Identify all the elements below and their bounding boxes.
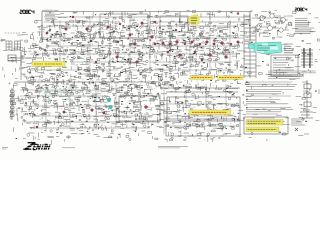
green-highlight component G6 [77,89,80,92]
long bus bottom band [24,122,160,128]
red transistor Q11 [117,41,119,43]
red transistor Q8 [107,26,110,29]
resistor [34,51,306,61]
setup table yellow row 2 [246,127,279,132]
wire [13,80,319,94]
label [18,100,228,110]
tuner coil group 2 [15,41,21,50]
green-highlight component G7 [83,95,86,98]
component value text flecks [34,30,271,40]
component value text flecks [33,70,234,80]
numbered note marks [246,82,248,108]
Zenith logo letters ENITH [33,144,50,149]
red transistor Q12 [134,43,137,46]
cyan highlighted IF module [254,42,282,54]
CRT socket marks [300,112,313,118]
component value text flecks [26,80,238,90]
yoke component column right [306,80,308,118]
green-highlight component G12 [59,88,62,90]
interconnect ladder rails [244,14,256,78]
red transistor Q37 [95,61,97,63]
red transistor Q13 [154,43,156,45]
transistor [1,39,294,51]
red text in osc bar [192,111,227,113]
red transistor Q31 [36,126,38,128]
resistor [14,80,266,91]
caption courtesy source [158,146,188,148]
flyback windings [301,50,313,65]
red transistor Q25 [167,51,169,53]
red transistor Q38 [136,61,139,64]
red transistor Q5 [119,23,121,25]
component value text flecks [25,101,239,110]
resistor [20,40,273,52]
wire [23,130,309,145]
red transistor Q10 [151,36,154,39]
yellow highlight bar (AGC line) [32,62,65,67]
notes paragraph right mid [268,71,316,79]
red transistor Q34 [145,106,148,109]
red transistor Q36 [116,56,119,59]
horizontal sweep board box [167,97,240,121]
red transistor Q23 [230,43,232,45]
long vertical wires [46,14,230,134]
transistor Q304 top-right [256,25,260,29]
label [44,40,305,50]
wires linking top-right transistors [252,16,289,30]
title block text top-left [45,13,60,16]
green-highlight component G11 [86,89,89,92]
red transistor Q39 [201,59,203,61]
red transistor Q19 [199,43,201,45]
red transistor Q24 [237,41,240,44]
vertical sub-board box [119,96,160,121]
note text right of table [291,119,305,125]
long signal wires top band [44,17,250,22]
green-highlight component G14 [97,90,100,93]
video IF block box [100,14,148,38]
wire [13,120,319,132]
red transistor Q27 [194,51,196,53]
footnote lines bottom right of notes [252,118,290,125]
highlighted transformer marks [191,18,197,23]
yellow highlight bar pair left [190,76,213,80]
setup table row2 text [248,128,277,130]
mini table right of module [284,44,293,53]
cyan pin box [249,44,255,49]
yoke coils [304,84,311,107]
component value text flecks [36,40,238,50]
caption bottom-left [2,148,8,149]
long horizontal wires lower band [20,90,238,126]
parts list box right [271,55,298,76]
label [38,20,276,29]
red transistor Q2 [65,28,68,31]
transistor [12,60,280,71]
red transistor Q18 [191,41,194,44]
green-highlight component G4 [63,90,66,93]
transistor Q306 top-right [279,28,283,32]
red transistor Q7 [154,21,156,23]
teal transistor Q201 [109,105,113,109]
red transistor Q32 [91,109,94,112]
red transistor Q26 [179,54,182,57]
chroma block box [160,16,188,32]
chassis label 20BC4 top-left [20,10,34,13]
component value text flecks [14,90,157,100]
resistor [60,130,286,140]
yellow highlight bar pair right [218,76,244,80]
green-highlight component G8 [48,98,51,101]
resistor [31,70,303,81]
resistor [2,30,320,42]
red transistor Q14 [162,42,165,45]
wire [14,90,307,104]
wire [4,70,310,84]
transistor Q302 top-right [270,14,274,18]
resistor [10,111,235,122]
wire [36,20,320,34]
IF module label marks [257,46,276,51]
red transistor Q28 [209,54,212,57]
resistor [35,20,283,31]
red transistor Q17 [184,43,186,45]
label [41,61,311,70]
wire vertical drops from top bus [122,12,250,40]
transistor [41,21,291,30]
highlighted transformer (yellow) top [188,14,200,25]
wire [17,30,316,43]
label [29,110,239,120]
transistor [23,119,226,130]
red text in bar 2 [219,77,242,79]
vertical component chain left [21,52,25,80]
yellow highlight bar (horizontal osc) [189,110,231,115]
teal transistor Q200 [107,98,111,102]
green-highlight component G9 [66,98,69,101]
transistor [21,90,309,100]
wire [42,10,319,23]
component value text flecks [21,111,234,120]
red transistor Q16 [176,41,179,44]
label [70,10,271,17]
tuner output wire [8,50,42,66]
wire schematic left border [41,12,43,41]
setup table row1 text [248,121,281,123]
Zenith logo white stripes [23,145,53,147]
red transistor Q30 [63,111,66,114]
transistor [61,29,246,40]
balun symbol [8,55,16,61]
transistor [26,69,239,81]
component value text flecks [21,50,240,60]
transistor [34,100,240,110]
wire [9,100,317,113]
small symbol under note [295,128,298,131]
notes paragraph right (voltage chart) [246,82,295,86]
red transistor Q35 [175,29,177,31]
setup table box [244,117,288,134]
AGC bar text [34,63,62,65]
IF module white windows [256,44,278,53]
resistor [43,120,280,132]
transistor [49,11,270,20]
transistor Q303 top-right [281,18,286,23]
transistor Q307 top-right [288,22,292,26]
resistor [86,11,296,22]
component value text flecks [34,120,233,130]
connector column left [11,88,13,120]
green-highlight component G13 [92,93,95,96]
red transistor Q4 [86,28,89,31]
label [11,51,300,60]
label [46,30,302,40]
component value text flecks [42,20,268,30]
resistor [10,90,306,101]
long horizontal wires mid band [30,26,244,70]
green-highlight component G2 [51,89,54,92]
tuner coil group 1 [6,41,12,50]
green-highlight component G3 [57,94,60,97]
red transistor Q22 [221,42,224,45]
component value text flecks [170,131,204,139]
wire [18,110,317,125]
transistor [27,129,253,140]
red transistor Q9 [129,34,131,36]
caption under logo right [62,147,75,149]
red transistor Q40 [225,56,228,59]
parts list rows [273,58,294,76]
green-highlight component G10 [74,97,77,100]
transistor [33,49,270,61]
red transistor Q1 [72,16,74,18]
red text in bar [192,77,212,79]
component value text flecks [22,61,230,70]
green-highlight component G5 [70,93,73,96]
wire right-mid horizontal runs [160,88,240,92]
red transistor Q6 [141,22,144,25]
red transistor Q33 [103,112,105,114]
label [16,131,281,138]
red transistor Q20 [206,41,209,44]
red transistor Q29 [237,12,239,14]
transistor Q305 top-right [268,26,273,31]
connector pins [11,90,15,117]
wire [13,40,320,54]
flyback transformer T2 [304,48,310,68]
transistor [10,109,309,121]
red transistor Q15 [169,43,171,45]
label [37,81,231,90]
chassis label 20BC4 top-right [295,8,307,11]
paper background [0,0,320,160]
wire [3,50,317,64]
label [31,90,317,99]
notes text block top-right [295,19,314,34]
wire antenna dashed lead-in [5,32,21,34]
wire [3,60,318,74]
red transistor Q3 [46,32,48,34]
resistor [28,61,244,72]
transistor Q301 top-right [260,16,265,21]
wire mid horizontal bus [14,81,160,83]
green-highlight component G1 [44,92,47,95]
label [56,121,307,130]
interconnect ladder rungs [244,16,256,76]
wire main top bus [42,11,252,13]
transistor [9,79,311,90]
Zenith logo Z bottom tail [23,148,31,150]
red transistor Q21 [213,43,215,45]
Zenith logo Z diagonal stroke [25,143,35,150]
Zenith logo letter Z top bar [28,142,36,144]
label [29,70,300,79]
bottom sound board box [166,119,240,136]
setup table yellow row 1 [246,120,283,126]
resistor [13,100,305,112]
